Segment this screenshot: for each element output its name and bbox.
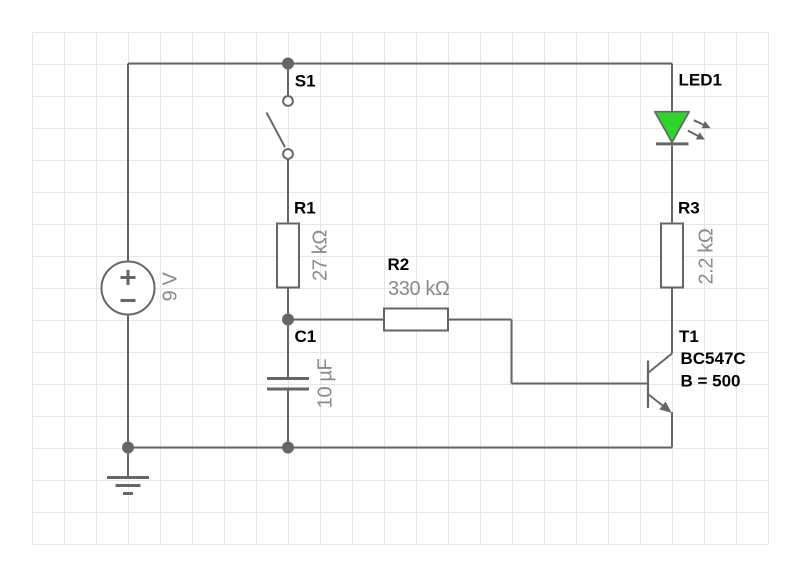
LED1 triangle [655, 112, 689, 143]
svg-text:R2: R2 [388, 255, 410, 274]
svg-text:27 kΩ: 27 kΩ [310, 230, 332, 281]
junction node at top rail / switch [282, 58, 294, 70]
svg-text:330 kΩ: 330 kΩ [388, 278, 450, 300]
wire R2 right lead [448, 319, 512, 321]
resistor R2 body [384, 309, 448, 331]
svg-text:R1: R1 [294, 198, 316, 217]
capacitor C1 bottom plate [267, 388, 309, 391]
wire R1 bottom to node [287, 288, 289, 320]
junction node ground / bottom rail [122, 442, 134, 454]
transistor T1 emitter diagonal [649, 395, 670, 411]
wire vertical jog down [511, 320, 513, 384]
wire R3 bottom to transistor collector [671, 288, 673, 354]
svg-text:C1: C1 [295, 327, 317, 346]
capacitor C1 top plate [267, 377, 309, 380]
switch S1 bottom contact [283, 149, 293, 159]
wire switch top lead [287, 64, 289, 97]
svg-text:BC547C: BC547C [681, 349, 746, 368]
wire LED cathode to R3 [671, 146, 673, 225]
wire node to C1 top plate [287, 320, 289, 378]
LED1 emission arrow 2 [688, 131, 705, 140]
wire left vertical upper (battery to top rail) [127, 64, 129, 263]
svg-text:S1: S1 [295, 72, 316, 91]
svg-text:B = 500: B = 500 [681, 372, 741, 391]
transistor T1 emitter arrowhead [659, 402, 672, 413]
svg-text:10 µF: 10 µF [315, 359, 337, 409]
svg-text:R3: R3 [678, 198, 700, 217]
LED1 cathode bar [656, 142, 689, 145]
svg-text:LED1: LED1 [679, 71, 722, 90]
battery plus sign [121, 270, 136, 285]
wire switch bottom lead to R1 [287, 159, 289, 224]
svg-text:2.2 kΩ: 2.2 kΩ [696, 228, 718, 284]
wire node to R2 left lead [288, 319, 384, 321]
wire top rail [128, 63, 672, 65]
resistor R1 body [277, 224, 299, 288]
wire C1 bottom to ground rail [287, 391, 289, 448]
wire bottom rail [128, 447, 672, 449]
switch S1 top contact [283, 96, 293, 106]
transistor T1 base bar [647, 361, 649, 409]
ground symbol [107, 448, 149, 494]
wire to transistor base [512, 383, 648, 385]
svg-text:9 V: 9 V [160, 272, 182, 302]
battery minus sign [121, 299, 136, 302]
transistor T1 collector diagonal [649, 354, 673, 373]
wire top rail to LED anode [671, 64, 673, 113]
svg-text:T1: T1 [679, 327, 699, 346]
battery V1 9V source circle [102, 262, 155, 315]
wire emitter to bottom rail [671, 412, 673, 448]
LED1 emission arrow 1 [694, 120, 711, 128]
junction node C1 / bottom rail [282, 442, 294, 454]
wire left vertical lower (battery to ground rail) [127, 315, 129, 448]
resistor R3 body [661, 224, 683, 288]
switch S1 blade [267, 113, 286, 148]
junction node R1/C1/R2 [282, 314, 294, 326]
